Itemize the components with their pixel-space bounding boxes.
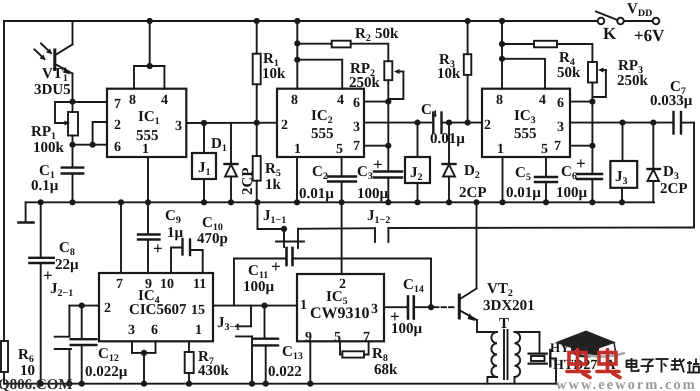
svg-text:5: 5 bbox=[336, 142, 343, 157]
phototransistor VT1 bbox=[35, 21, 73, 102]
node R1 rail tap bbox=[254, 18, 260, 24]
node C2 bottom on rail bbox=[339, 199, 345, 205]
contact J1-1 bbox=[276, 226, 304, 248]
wire top supply rail bbox=[4, 20, 598, 22]
svg-text:7: 7 bbox=[353, 139, 360, 154]
switch K bbox=[596, 12, 659, 25]
svg-text:+: + bbox=[271, 257, 281, 276]
svg-text:2: 2 bbox=[484, 118, 491, 133]
svg-text:10: 10 bbox=[160, 277, 174, 292]
svg-text:3: 3 bbox=[128, 323, 135, 338]
wire IC4 pin2 bbox=[69, 305, 99, 307]
svg-text:6: 6 bbox=[557, 96, 564, 111]
wire C11 left to pin15 net bbox=[233, 259, 235, 306]
node IC3 rail tap bbox=[499, 18, 505, 24]
wire contact bus bbox=[258, 202, 695, 229]
svg-text:250k: 250k bbox=[617, 73, 649, 89]
node IC3 bracket junction bbox=[499, 56, 505, 62]
wire IC1 pin3 output to IC2 pin2 bbox=[186, 122, 276, 124]
pin numbers IC5 bbox=[300, 277, 378, 345]
svg-text:1: 1 bbox=[497, 142, 504, 157]
node D3 top bbox=[650, 120, 656, 126]
svg-text:1: 1 bbox=[294, 142, 301, 157]
node IC1 bracket junction bbox=[147, 63, 153, 69]
svg-text:100µ: 100µ bbox=[391, 321, 423, 337]
svg-text:0.033µ: 0.033µ bbox=[650, 93, 693, 109]
svg-text:10k: 10k bbox=[437, 66, 461, 82]
svg-text:3: 3 bbox=[557, 120, 564, 135]
svg-text:7: 7 bbox=[116, 277, 123, 292]
node IC1 rail tap bbox=[147, 18, 153, 24]
node J2 tap bbox=[414, 120, 420, 126]
op-amp IC5 CW9310 box bbox=[297, 274, 384, 341]
capacitor C9 bbox=[138, 202, 160, 273]
svg-text:1: 1 bbox=[142, 142, 149, 157]
wire left border bbox=[3, 21, 5, 384]
resistor R8 bbox=[340, 341, 369, 357]
svg-text:Q806.COM: Q806.COM bbox=[0, 377, 73, 391]
resistor R5 bbox=[253, 123, 261, 203]
node J2 bottom on rail bbox=[414, 199, 420, 205]
node VT1 emitter junction bbox=[69, 99, 75, 105]
svg-text:555: 555 bbox=[311, 126, 334, 142]
node R2 tap bbox=[294, 40, 300, 46]
capacitor C3 bbox=[374, 146, 402, 203]
node IC3 pin7 junction bbox=[589, 143, 595, 149]
svg-text:470p: 470p bbox=[197, 231, 228, 247]
wire IC3 pin1 to rail bbox=[502, 157, 504, 202]
wire pin6 to pin7 column IC3 bbox=[591, 102, 593, 146]
resistor R2 bbox=[297, 41, 388, 62]
svg-text:2: 2 bbox=[104, 301, 111, 316]
potentiometer RP2 bbox=[384, 61, 403, 101]
potentiometer RP3 bbox=[588, 62, 606, 102]
capacitor C2 bbox=[328, 157, 356, 202]
svg-text:5: 5 bbox=[334, 330, 341, 345]
wire VT2 base feed bbox=[430, 259, 432, 308]
svg-text:555: 555 bbox=[514, 126, 537, 142]
diode D2 bbox=[443, 123, 456, 203]
svg-text:555: 555 bbox=[136, 128, 159, 144]
wire IC2 pin7 bbox=[364, 145, 388, 147]
pin numbers IC3 bbox=[484, 93, 564, 157]
svg-text:3: 3 bbox=[371, 302, 378, 317]
svg-text:1: 1 bbox=[195, 323, 202, 338]
svg-text:0.1µ: 0.1µ bbox=[31, 178, 59, 194]
wire pin6 to pin7 column bbox=[387, 102, 389, 146]
contact J1-2 bbox=[375, 228, 388, 242]
svg-text:7: 7 bbox=[114, 97, 121, 112]
node pins3-6 junction bbox=[141, 350, 147, 356]
svg-text:50k: 50k bbox=[557, 65, 581, 81]
svg-text:11: 11 bbox=[193, 277, 206, 292]
node C13 tap bbox=[261, 303, 267, 309]
svg-text:2CP: 2CP bbox=[459, 185, 487, 201]
svg-text:100µ: 100µ bbox=[357, 186, 389, 202]
wire IC4 pin7 to mid rail bbox=[120, 202, 122, 273]
node C12 bottom on ground rail bbox=[79, 381, 85, 387]
svg-text:+: + bbox=[373, 155, 383, 174]
wire IC2 pin8 from rail bbox=[296, 21, 298, 89]
svg-text:0.022µ: 0.022µ bbox=[85, 364, 128, 380]
potentiometer RP1 bbox=[65, 102, 79, 145]
capacitor C12 bbox=[71, 306, 97, 384]
node R4 tap bbox=[499, 41, 505, 47]
resistor R6 bbox=[1, 341, 8, 372]
node R5 bottom on rail bbox=[254, 199, 260, 205]
node IC2 pin1 on rail bbox=[294, 199, 300, 205]
capacitor C6 bbox=[577, 146, 602, 203]
node C12 tap bbox=[79, 303, 85, 309]
svg-text:1k: 1k bbox=[265, 177, 282, 193]
contact J3-1 bbox=[236, 306, 252, 384]
wire IC3 pin6 bbox=[570, 101, 592, 103]
node IC2 rail tap bbox=[294, 18, 300, 24]
node J3 bottom on rail bbox=[619, 199, 625, 205]
svg-text:100k: 100k bbox=[33, 140, 65, 156]
wire IC5 pin9 to ground bbox=[309, 341, 311, 383]
capacitor C7 bbox=[674, 112, 695, 134]
wire IC4 pins3-6 to ground bbox=[132, 341, 156, 383]
pin numbers IC1 bbox=[114, 93, 182, 157]
node IC5 pin9 on ground rail bbox=[307, 381, 313, 387]
relay J3 bbox=[610, 123, 637, 203]
svg-text:T: T bbox=[499, 316, 509, 332]
op-amp IC3 555 box bbox=[482, 89, 570, 157]
wire pin2 of IC1 bbox=[93, 122, 107, 145]
node IC2 pin7 junction bbox=[385, 143, 391, 149]
node C8 rail tap bbox=[38, 199, 44, 205]
svg-text:+: + bbox=[153, 239, 163, 258]
watermark graduation cap logo bbox=[555, 331, 625, 358]
node IC4 pin7 on rail bbox=[118, 199, 124, 205]
svg-text:8: 8 bbox=[291, 93, 298, 108]
node C13 bottom on ground rail bbox=[263, 381, 269, 387]
watermark red characters (drawn strokes) bbox=[567, 350, 620, 378]
wire IC3 pin4 bracket bbox=[502, 59, 545, 89]
pin numbers IC4 bbox=[104, 277, 206, 338]
capacitor C11 bbox=[234, 248, 431, 265]
svg-text:8: 8 bbox=[129, 93, 136, 108]
wire IC1 pin1 to mid rail bbox=[147, 157, 149, 202]
node pin2 branch bbox=[90, 142, 96, 148]
svg-text:10k: 10k bbox=[262, 66, 286, 82]
wire bottom ground rail bbox=[4, 383, 556, 385]
wire IC3 pin8 from rail bbox=[501, 21, 503, 89]
node R3 bottom junction bbox=[465, 120, 471, 126]
resistor R7 bbox=[185, 341, 194, 383]
svg-text:15: 15 bbox=[191, 303, 205, 318]
svg-text:2CP: 2CP bbox=[660, 181, 688, 197]
pin numbers IC2 bbox=[281, 93, 360, 157]
svg-text:22µ: 22µ bbox=[55, 257, 79, 273]
node C1 bottom on mid rail bbox=[69, 199, 75, 205]
node R1 bottom junction bbox=[254, 120, 260, 126]
node C8 bottom on ground rail bbox=[38, 381, 44, 387]
wire IC2 pin1 to rail bbox=[296, 157, 298, 202]
op-amp IC4 CIC5607 box bbox=[99, 273, 213, 341]
buzzer HTD27-A piezo bbox=[529, 350, 556, 384]
resistor R3 bbox=[464, 21, 472, 123]
capacitor C13 bbox=[253, 306, 278, 384]
svg-text:1: 1 bbox=[300, 298, 307, 313]
node J3 tap bbox=[619, 120, 625, 126]
capacitor C5 bbox=[535, 157, 557, 202]
svg-text:+6V: +6V bbox=[634, 26, 665, 45]
node J3-1 bottom on ground rail bbox=[249, 381, 255, 387]
svg-text:0.01µ: 0.01µ bbox=[506, 185, 541, 201]
wire mid rail bbox=[26, 201, 654, 203]
svg-text:7: 7 bbox=[554, 139, 561, 154]
node C3 bottom on rail bbox=[385, 199, 391, 205]
svg-text:K: K bbox=[603, 24, 617, 43]
node D1 bottom on rail bbox=[228, 199, 234, 205]
wire dashed base link bbox=[434, 306, 457, 308]
node IC2 bracket junction bbox=[294, 57, 300, 63]
svg-text:8: 8 bbox=[496, 93, 503, 108]
wire IC4 pin15 to IC5 pin1 bbox=[213, 305, 297, 307]
wire IC3 pin7 bbox=[570, 145, 592, 147]
node IC1 pin1 on rail bbox=[145, 199, 151, 205]
svg-text:4: 4 bbox=[539, 93, 546, 108]
svg-text:6: 6 bbox=[114, 140, 121, 155]
wire IC2 pin6 bbox=[364, 101, 388, 103]
node IC3 pin1 on rail bbox=[499, 199, 505, 205]
svg-text:2: 2 bbox=[281, 118, 288, 133]
resistor R4 bbox=[502, 41, 592, 62]
svg-text:CW9310: CW9310 bbox=[310, 305, 370, 322]
svg-text:2: 2 bbox=[114, 118, 121, 133]
wire IC3 pin3 output line bbox=[570, 122, 673, 124]
wire IC5 pin2 to mid rail bbox=[341, 202, 343, 274]
wire pin7 of IC1 bbox=[73, 101, 108, 103]
node C5 bottom on rail bbox=[543, 199, 549, 205]
node VT2 collector on mid rail bbox=[473, 199, 479, 205]
node IC2 pin6 junction bbox=[385, 99, 391, 105]
svg-text:www.eeworm.com: www.eeworm.com bbox=[556, 377, 697, 391]
svg-text:5: 5 bbox=[541, 142, 548, 157]
svg-text:250k: 250k bbox=[349, 75, 381, 91]
watermark site name (drawn strokes) bbox=[627, 358, 700, 373]
relay J2 bbox=[405, 123, 430, 203]
diode D3 bbox=[648, 123, 661, 203]
wire IC2 pin3 output line bbox=[364, 122, 433, 124]
node VT2 base node bbox=[428, 304, 434, 310]
node D2 top bbox=[446, 120, 452, 126]
op-amp IC2 555 box bbox=[277, 89, 364, 157]
svg-text:4: 4 bbox=[337, 93, 344, 108]
svg-text:430k: 430k bbox=[198, 363, 230, 379]
svg-text:50k: 50k bbox=[375, 26, 399, 42]
ground symbol bbox=[19, 202, 34, 222]
svg-text:100µ: 100µ bbox=[556, 185, 588, 201]
wire IC2 pin4 bracket bbox=[297, 60, 342, 89]
node C6 bottom on rail bbox=[589, 199, 595, 205]
node D2 bottom on rail bbox=[446, 199, 452, 205]
capacitor C1 bbox=[62, 145, 83, 203]
svg-text:0.022: 0.022 bbox=[268, 364, 302, 380]
capacitor C14 bbox=[384, 297, 431, 319]
svg-text:1µ: 1µ bbox=[167, 225, 184, 241]
svg-text:0.01µ: 0.01µ bbox=[430, 131, 465, 147]
node R3 rail tap bbox=[465, 18, 471, 24]
svg-text:7: 7 bbox=[363, 330, 370, 345]
svg-text:3DX201: 3DX201 bbox=[483, 298, 535, 314]
svg-text:3DU5: 3DU5 bbox=[34, 82, 71, 98]
svg-text:2CP: 2CP bbox=[240, 168, 256, 196]
svg-text:CIC5607: CIC5607 bbox=[129, 302, 187, 318]
wire RP1 wiper loop bbox=[55, 102, 73, 123]
svg-text:0.01µ: 0.01µ bbox=[299, 186, 334, 202]
svg-text:4: 4 bbox=[161, 93, 168, 108]
op-amp IC1 555 box bbox=[107, 89, 186, 157]
transistor VT2 bbox=[459, 202, 477, 321]
svg-text:6: 6 bbox=[353, 96, 360, 111]
svg-text:3: 3 bbox=[175, 119, 182, 134]
svg-text:100µ: 100µ bbox=[243, 279, 275, 295]
node IC3 pin6 junction bbox=[589, 99, 595, 105]
transformer T bbox=[477, 320, 540, 384]
capacitor C10 bbox=[171, 239, 203, 273]
wire pin6 of IC1 bbox=[73, 144, 108, 146]
capacitor C4 bbox=[433, 113, 482, 134]
relay J1 bbox=[192, 123, 216, 202]
wire right border bbox=[693, 123, 695, 228]
node R7 bottom on ground rail bbox=[186, 381, 192, 387]
node RP1 bottom junction bbox=[69, 142, 75, 148]
svg-text:68k: 68k bbox=[374, 362, 398, 378]
node J1 bottom on rail bbox=[201, 199, 207, 205]
contact J2-1 bbox=[55, 306, 71, 384]
wire IC1 supply bracket bbox=[134, 21, 164, 89]
resistor R1 bbox=[253, 21, 261, 123]
svg-text:3: 3 bbox=[353, 120, 360, 135]
svg-text:6: 6 bbox=[151, 323, 158, 338]
svg-text:+: + bbox=[576, 154, 586, 173]
diode D1 bbox=[225, 123, 238, 202]
svg-text:9: 9 bbox=[305, 330, 312, 345]
node pins3-6 on ground rail bbox=[141, 381, 147, 387]
node J2-1 bottom on ground rail bbox=[66, 381, 72, 387]
node J1 top bbox=[201, 120, 207, 126]
capacitor C8 bbox=[29, 202, 53, 383]
